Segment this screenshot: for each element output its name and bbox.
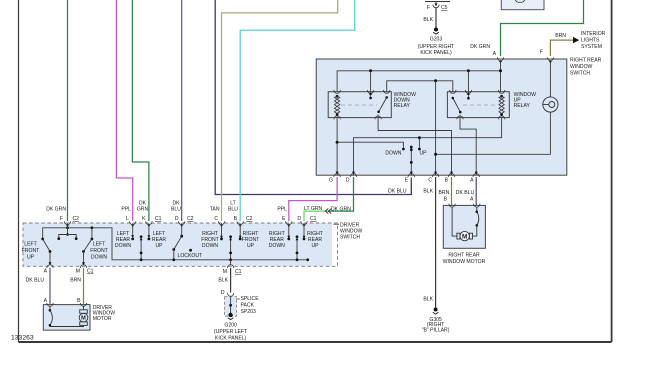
pin B driver switch (237, 221, 244, 224)
svg-text:LT GRN: LT GRN (304, 206, 323, 212)
svg-text:E: E (282, 216, 286, 222)
svg-text:KICK PANEL): KICK PANEL) (420, 50, 452, 56)
driver switch top pins (66, 225, 69, 228)
svg-text:SWITCH: SWITCH (570, 71, 590, 77)
svg-text:LIGHTS: LIGHTS (581, 38, 600, 44)
svg-text:DK BLU: DK BLU (388, 189, 407, 195)
svg-text:WINDOW: WINDOW (570, 64, 593, 70)
wire BLK to ground G203 (435, 8, 437, 29)
left front up switch (41, 238, 44, 241)
internal bus L2 between relay switch pivots (387, 81, 453, 92)
svg-text:SP203: SP203 (241, 309, 256, 315)
wire down relay NC contact to pin B (378, 118, 451, 176)
left front down switch (91, 238, 94, 241)
wire DK BLU to driver motor pin A (49, 268, 51, 305)
svg-text:C2: C2 (246, 216, 253, 222)
relay switch (385, 96, 388, 99)
pin A2 right rear switch (473, 174, 480, 177)
right front window motor box (cut off at top) (501, 0, 544, 10)
svg-text:RELAY: RELAY (514, 103, 531, 109)
svg-text:FRONT: FRONT (22, 248, 40, 254)
svg-text:DOWN: DOWN (202, 243, 218, 249)
svg-text:M: M (76, 268, 80, 274)
svg-text:UP: UP (420, 151, 428, 157)
wire lamp to pin C vertical (436, 153, 551, 155)
wire from L2 down to pin C (435, 81, 437, 175)
svg-text:C1: C1 (235, 269, 242, 275)
svg-text:BLK: BLK (218, 278, 228, 284)
svg-text:UP: UP (155, 243, 163, 249)
svg-text:RIGHT REAR: RIGHT REAR (448, 253, 480, 259)
svg-text:DOWN: DOWN (115, 243, 131, 249)
svg-text:A: A (470, 197, 474, 203)
ground G203 (433, 28, 439, 35)
frame border bottom (19, 341, 612, 343)
wire DK BLU to driver switch pin D (181, 0, 183, 221)
svg-text:SYSTEM: SYSTEM (581, 44, 602, 50)
svg-text:MOTOR: MOTOR (93, 316, 112, 322)
svg-text:D: D (175, 216, 179, 222)
svg-text:D: D (297, 216, 301, 222)
pin F right rear switch (547, 57, 554, 60)
svg-text:UP: UP (247, 243, 255, 249)
pin E driver switch (286, 221, 293, 224)
pin D right rear switch (350, 174, 357, 177)
pin D2 driver switch (301, 221, 308, 224)
wire from down relay coil to pin G (336, 118, 338, 176)
pin M driver switch bottom (80, 265, 87, 268)
svg-text:F: F (540, 50, 543, 56)
svg-text:KICK PANEL): KICK PANEL) (215, 336, 247, 342)
switch box bottom pins G D E C B A (336, 172, 339, 175)
wire LT BLU to driver switch pin B (240, 0, 355, 221)
relay coil (500, 95, 503, 98)
svg-text:C: C (214, 216, 218, 222)
svg-text:C: C (428, 177, 432, 183)
svg-text:BLK: BLK (423, 297, 433, 303)
svg-text:PPL: PPL (277, 207, 287, 213)
svg-text:B: B (445, 177, 449, 183)
svg-text:RIGHT REAR: RIGHT REAR (570, 58, 602, 64)
svg-text:GRN: GRN (137, 207, 149, 213)
pin L driver switch (129, 221, 136, 224)
relay armature arrow (370, 93, 372, 98)
driver window switch box (23, 223, 332, 266)
right front switch contacts (221, 224, 223, 238)
splice pack SP203 (225, 296, 237, 317)
right front switch common (229, 235, 232, 238)
svg-text:WINDOW MOTOR: WINDOW MOTOR (443, 259, 486, 265)
svg-text:C2: C2 (73, 216, 80, 222)
svg-text:BLU: BLU (171, 207, 181, 213)
left rear switch contacts (132, 224, 134, 237)
svg-text:(UPPER LEFT: (UPPER LEFT (214, 329, 247, 335)
svg-text:D: D (346, 177, 350, 183)
right rear window switch box (316, 59, 567, 175)
wire to UP contact (418, 138, 420, 148)
wire DK GRN to driver switch pin K (132, 0, 149, 221)
svg-text:C1: C1 (87, 268, 94, 274)
svg-text:FRONT: FRONT (90, 248, 108, 254)
window down relay U1 (328, 90, 391, 119)
svg-text:BRN: BRN (555, 33, 566, 39)
wire BLK from pin M to splice (230, 268, 232, 293)
svg-text:K: K (142, 216, 146, 222)
svg-text:A: A (44, 268, 48, 274)
wire TAN to driver switch pin C (222, 0, 338, 221)
relay coil (336, 95, 339, 98)
svg-text:DOWN: DOWN (91, 255, 107, 261)
svg-text:BLK: BLK (423, 189, 433, 195)
pin M2 driver switch bottom (227, 265, 234, 268)
svg-text:UP: UP (311, 243, 319, 249)
wire DK GRN / LT GRN pin D to driver switch pin D (328, 177, 354, 211)
pin E right rear switch (408, 174, 415, 177)
pin F driver switch (64, 221, 71, 224)
wire BLK pin C to ground G305 (435, 177, 437, 308)
svg-text:M: M (462, 234, 467, 241)
motor symbol (457, 233, 460, 239)
svg-text:DOWN: DOWN (385, 151, 401, 157)
svg-text:B: B (234, 216, 238, 222)
svg-text:BRN: BRN (439, 190, 450, 196)
wire DK BLU pin A to motor (475, 177, 477, 205)
svg-text:DK GRN: DK GRN (46, 207, 66, 213)
relay armature arrow (467, 93, 469, 98)
wire PPL pin G to driver switch pin E (289, 177, 337, 221)
svg-text:B: B (444, 197, 448, 203)
svg-text:C2: C2 (187, 216, 194, 222)
lockout switch (181, 224, 183, 237)
svg-text:SPLICE: SPLICE (241, 296, 260, 302)
svg-text:A: A (493, 51, 497, 57)
svg-text:TAN: TAN (210, 207, 220, 213)
wire pin E wiper (410, 147, 412, 176)
relay armature dashed link (463, 104, 497, 106)
pin C right rear switch (432, 174, 439, 177)
svg-text:G: G (329, 177, 333, 183)
wire LT GRN into driver switch pin D (304, 211, 328, 221)
svg-text:"B" PILLAR): "B" PILLAR) (422, 328, 450, 334)
ground G200 (228, 318, 234, 320)
svg-text:DK GRN: DK GRN (331, 207, 351, 213)
svg-text:F: F (427, 5, 430, 11)
svg-text:G200: G200 (224, 323, 237, 329)
right rear switch contacts (288, 224, 290, 238)
svg-text:UP: UP (27, 255, 35, 261)
svg-text:E: E (405, 177, 409, 183)
svg-text:LEFT: LEFT (93, 242, 105, 248)
wire to DOWN contact (337, 142, 403, 147)
pin G right rear switch (334, 174, 341, 177)
svg-text:C1: C1 (310, 216, 317, 222)
pin D driver switch (178, 221, 185, 224)
internal wire from pin A down to up-relay coil (499, 61, 502, 64)
svg-text:M: M (81, 316, 86, 322)
wire pin D to up relay coil (354, 118, 502, 176)
indicator lamp (543, 61, 558, 155)
svg-text:DK GRN: DK GRN (470, 44, 490, 50)
svg-text:BLU: BLU (228, 207, 238, 213)
left rear switch common (140, 235, 143, 238)
wire DK BLU from top to right rear switch pin E (215, 0, 411, 195)
motor symbol (83, 306, 85, 310)
wire DK GRN from top right to switch pin A (501, 0, 584, 56)
svg-text:F: F (60, 216, 63, 222)
svg-text:INTERIOR: INTERIOR (581, 31, 606, 37)
ground G305 (433, 308, 439, 315)
svg-text:BRN: BRN (70, 278, 81, 284)
svg-text:DK BLU: DK BLU (26, 278, 45, 284)
relay switch (452, 97, 455, 100)
svg-text:133263: 133263 (11, 335, 34, 342)
svg-text:DK BLU: DK BLU (456, 190, 475, 196)
frame border right (611, 0, 613, 342)
wire BRN to driver motor pin B (83, 268, 85, 305)
svg-text:C5: C5 (441, 5, 448, 11)
svg-text:SWITCH: SWITCH (340, 235, 360, 241)
pin A driver switch bottom (47, 265, 54, 268)
svg-text:DOWN: DOWN (269, 243, 285, 249)
wire PPL to driver switch pin L (116, 0, 132, 221)
svg-text:L: L (126, 216, 129, 222)
wire up relay NC contact to pin A (460, 118, 476, 176)
right rear switch common (296, 235, 299, 238)
pin B right rear switch (448, 174, 455, 177)
wire DK GRN to driver switch pin F (67, 0, 69, 221)
svg-text:PPL: PPL (121, 207, 131, 213)
splice marker on green wire (325, 209, 331, 214)
internal bus L1 (337, 71, 500, 92)
pin F wiper bar (67, 224, 69, 235)
svg-text:LOCKOUT: LOCKOUT (178, 253, 203, 259)
pin A right rear switch (497, 57, 504, 60)
svg-text:A: A (470, 177, 474, 183)
window up relay U2 (447, 90, 509, 119)
svg-text:BLK: BLK (423, 17, 433, 23)
pin C driver switch (218, 221, 225, 224)
wire BRN to interior lights (550, 40, 573, 56)
svg-text:LEFT: LEFT (24, 242, 36, 248)
svg-text:PACK: PACK (241, 303, 255, 309)
arrow to interior lights system (573, 37, 579, 43)
connector C5 at top with pin F (425, 2, 450, 12)
frame border left (18, 0, 20, 342)
wire BRN pin B to motor (451, 177, 453, 205)
svg-text:D: D (221, 290, 225, 296)
svg-text:G203: G203 (430, 37, 443, 43)
relay armature dashed link (341, 104, 377, 106)
right rear window motor (443, 204, 485, 249)
driver switch feed wire from pin F (43, 228, 308, 260)
svg-text:C1: C1 (155, 216, 162, 222)
pin K driver switch (146, 221, 153, 224)
svg-text:RELAY: RELAY (394, 103, 411, 109)
svg-text:M: M (223, 269, 227, 275)
driver window motor (43, 303, 90, 330)
